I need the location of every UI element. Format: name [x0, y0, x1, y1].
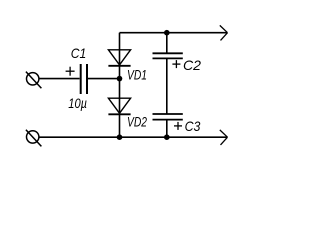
- wire: C3 bottom plate to bottom rail: [166, 120, 168, 138]
- wire: C2 bottom plate to C3 top plate: [166, 58, 168, 114]
- junction dot: bottom rail / C3: [164, 134, 170, 140]
- capacitor C3: [153, 114, 183, 120]
- diode VD2: [108, 98, 130, 114]
- capacitor C1: [81, 64, 87, 94]
- input terminal X2 (bottom): [26, 130, 42, 147]
- wire: main vertical line through diodes: [119, 33, 121, 138]
- arrow: bottom output: [220, 130, 228, 145]
- capacitor C2: [153, 53, 183, 58]
- label + (C1 polarity): [66, 67, 75, 76]
- diode VD1: [108, 50, 130, 66]
- wire: top terminal to C1 left plate: [39, 78, 80, 80]
- arrow: top output: [220, 25, 228, 40]
- label + (C2 polarity): [172, 60, 180, 68]
- wire: top rail: [120, 32, 228, 34]
- junction dot: bottom rail / VD2: [117, 134, 123, 140]
- node A (junction C1/VD1/VD2): [117, 76, 123, 82]
- wire: top rail to C2 top plate: [166, 33, 168, 54]
- svg-text:10µ: 10µ: [68, 96, 87, 111]
- svg-text:C1: C1: [71, 45, 87, 61]
- svg-text:VD2: VD2: [127, 114, 147, 130]
- input terminal X1 (top): [26, 72, 42, 89]
- svg-text:VD1: VD1: [127, 67, 147, 83]
- wire: C1 right plate to node A: [88, 78, 120, 80]
- label + (C3 polarity): [174, 122, 182, 130]
- junction dot: top rail / C2: [164, 30, 170, 36]
- svg-text:C3: C3: [185, 118, 201, 134]
- wire: bottom rail: [39, 136, 227, 138]
- svg-text:C2: C2: [183, 57, 201, 73]
